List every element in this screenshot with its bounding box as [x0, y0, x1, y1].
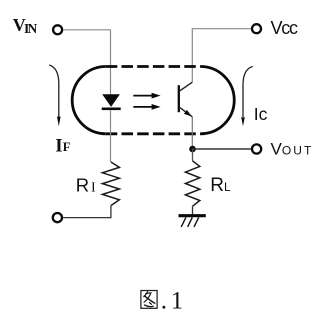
- terminal bottom-left (open circle): [53, 213, 62, 222]
- ground symbol bar: [179, 214, 206, 217]
- current arrow IF (curved, pointing down): [49, 65, 59, 117]
- svg-text:Ic: Ic: [254, 104, 268, 124]
- resistor RL (zigzag): [185, 161, 199, 207]
- phototransistor Q1 collector lead: [179, 82, 193, 91]
- wire RL to ground: [192, 206, 194, 214]
- optocoupler U1 body: top dashed edge: [106, 65, 201, 68]
- wire node to RL: [192, 149, 194, 161]
- svg-text:.: .: [161, 287, 167, 314]
- ground hatch 1: [181, 217, 186, 227]
- LED D1 cathode bar: [102, 108, 121, 111]
- svg-text:Vcc: Vcc: [271, 18, 299, 38]
- node junction dot (emitter / RL / VOUT): [189, 146, 196, 153]
- wire RI to bottom-left terminal: [63, 206, 111, 218]
- svg-text:1: 1: [171, 287, 184, 314]
- optocoupler U1 body: bottom dashed edge: [106, 132, 201, 135]
- resistor RI (zigzag): [102, 162, 119, 206]
- caption glyph 图 (drawn): [141, 291, 157, 309]
- LED D1 triangle (anode): [102, 94, 120, 107]
- terminal VIN (open circle): [53, 25, 62, 34]
- terminal Vcc (open circle): [252, 24, 261, 33]
- phototransistor Q1 emitter lead: [179, 107, 193, 117]
- svg-text:I: I: [91, 181, 96, 196]
- svg-text:R: R: [76, 175, 89, 196]
- wire Vcc terminal to phototransistor collector (top-right L): [192, 29, 251, 82]
- wire VIN terminal to LED anode (top-left L): [64, 30, 111, 95]
- wire LED cathode to RI: [110, 110, 112, 162]
- light emission arrow (upper): [133, 93, 160, 99]
- optocoupler U1 body: right solid cap of stadium: [201, 67, 235, 134]
- wire node to VOUT terminal: [193, 148, 251, 150]
- light emission arrow (lower): [133, 104, 160, 110]
- optocoupler U1 body: left solid cap of stadium: [72, 67, 106, 134]
- terminal VOUT (open circle): [252, 144, 261, 153]
- ground hatch 2: [188, 217, 193, 227]
- wire emitter to output node: [191, 117, 193, 149]
- phototransistor Q1 emitter arrowhead: [184, 110, 192, 117]
- current arrow Ic (curved, pointing down): [243, 67, 253, 118]
- ground hatch 3: [194, 217, 199, 227]
- phototransistor Q1 base bar: [178, 85, 180, 112]
